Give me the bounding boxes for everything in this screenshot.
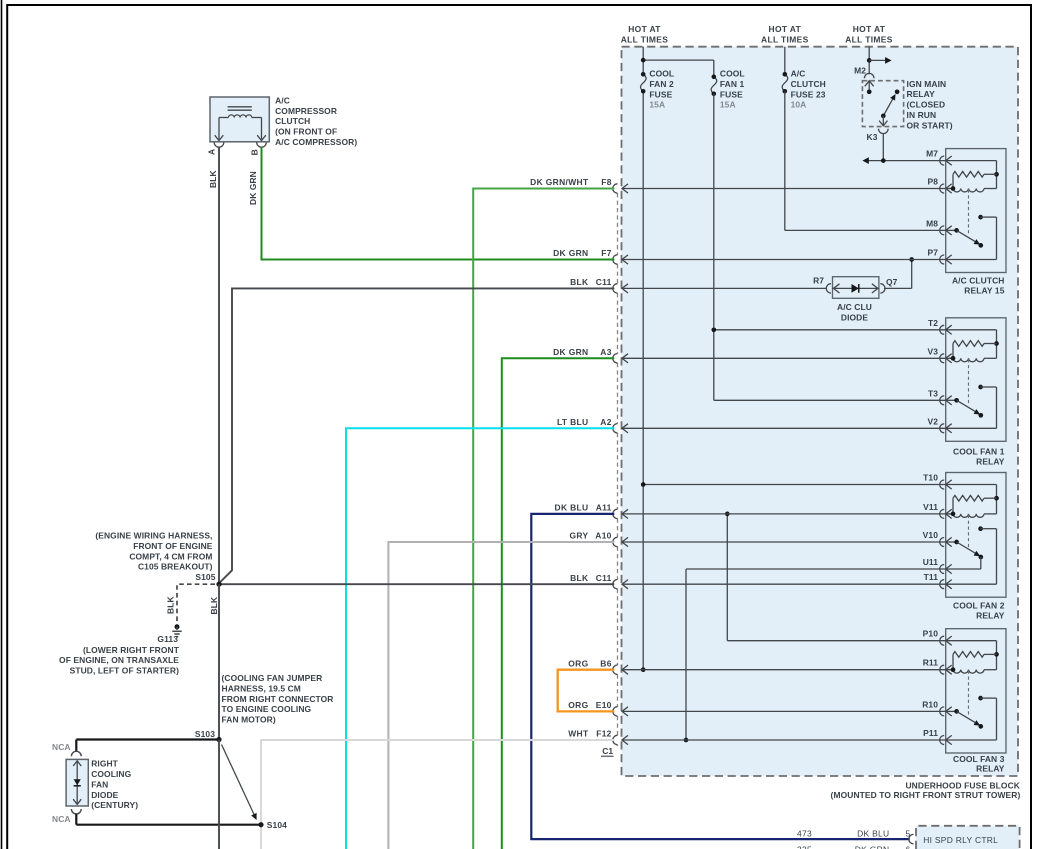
svg-text:FRONT OF ENGINE: FRONT OF ENGINE <box>133 541 213 551</box>
svg-text:FAN: FAN <box>91 779 108 789</box>
svg-text:Q7: Q7 <box>886 277 898 287</box>
svg-text:V3: V3 <box>927 346 938 356</box>
svg-text:LT BLU: LT BLU <box>557 417 588 427</box>
svg-text:FAN 2: FAN 2 <box>649 79 674 89</box>
svg-text:HOT AT: HOT AT <box>628 24 661 34</box>
svg-text:S104: S104 <box>267 820 287 830</box>
svg-text:GRY: GRY <box>569 531 588 541</box>
svg-text:FROM RIGHT CONNECTOR: FROM RIGHT CONNECTOR <box>222 694 334 704</box>
svg-text:T2: T2 <box>928 318 938 328</box>
svg-text:CLUTCH: CLUTCH <box>791 79 826 89</box>
svg-text:COMPT, 4 CM FROM: COMPT, 4 CM FROM <box>129 551 212 561</box>
svg-text:FUSE: FUSE <box>720 89 743 99</box>
svg-text:COOL FAN 2: COOL FAN 2 <box>953 601 1005 611</box>
svg-text:IGN MAIN: IGN MAIN <box>907 79 947 89</box>
svg-text:P8: P8 <box>927 177 938 187</box>
svg-text:HARNESS, 19.5 CM: HARNESS, 19.5 CM <box>222 683 301 693</box>
svg-text:10A: 10A <box>791 100 807 110</box>
svg-text:S105: S105 <box>195 572 215 582</box>
svg-text:ALL TIMES: ALL TIMES <box>621 34 669 44</box>
svg-text:M8: M8 <box>926 218 938 228</box>
svg-text:OF ENGINE, ON TRANSAXLE: OF ENGINE, ON TRANSAXLE <box>59 655 179 665</box>
svg-text:STUD, LEFT OF STARTER): STUD, LEFT OF STARTER) <box>70 666 179 676</box>
svg-text:CLUTCH: CLUTCH <box>275 116 310 126</box>
svg-text:ORG: ORG <box>568 700 588 710</box>
svg-text:HOT AT: HOT AT <box>853 24 886 34</box>
svg-text:COOL FAN 1: COOL FAN 1 <box>953 447 1005 457</box>
svg-text:BLK: BLK <box>165 596 175 614</box>
svg-text:A3: A3 <box>600 347 611 357</box>
svg-text:V2: V2 <box>927 416 938 426</box>
svg-text:FUSE 23: FUSE 23 <box>791 89 826 99</box>
svg-text:M7: M7 <box>926 149 938 159</box>
svg-text:DIODE: DIODE <box>91 790 118 800</box>
svg-text:A10: A10 <box>595 531 611 541</box>
svg-text:R10: R10 <box>922 699 938 709</box>
svg-text:B6: B6 <box>600 658 611 668</box>
svg-text:BLK: BLK <box>570 277 589 287</box>
svg-text:A: A <box>207 149 217 155</box>
svg-text:OR START): OR START) <box>907 120 953 130</box>
svg-text:F8: F8 <box>601 177 611 187</box>
svg-text:M2: M2 <box>854 65 866 75</box>
svg-text:C1: C1 <box>602 746 613 756</box>
svg-text:P11: P11 <box>923 728 938 738</box>
svg-text:(ON FRONT OF: (ON FRONT OF <box>275 127 337 137</box>
svg-text:A/C COMPRESSOR): A/C COMPRESSOR) <box>275 137 357 147</box>
svg-text:R11: R11 <box>923 658 939 668</box>
svg-text:5: 5 <box>906 828 911 838</box>
svg-text:A2: A2 <box>600 417 611 427</box>
svg-text:HI SPD RLY CTRL: HI SPD RLY CTRL <box>923 835 998 845</box>
svg-text:ALL TIMES: ALL TIMES <box>845 34 893 44</box>
svg-text:R7: R7 <box>813 276 824 286</box>
svg-text:G113: G113 <box>157 634 178 644</box>
svg-text:T10: T10 <box>923 473 938 483</box>
svg-text:(CLOSED: (CLOSED <box>907 100 946 110</box>
svg-text:A/C: A/C <box>791 69 806 79</box>
svg-text:F7: F7 <box>601 248 611 258</box>
svg-text:FUSE: FUSE <box>649 89 672 99</box>
svg-text:15A: 15A <box>649 100 665 110</box>
svg-text:COOLING: COOLING <box>91 769 131 779</box>
svg-text:E10: E10 <box>596 700 612 710</box>
svg-text:S103: S103 <box>195 729 215 739</box>
svg-text:C11: C11 <box>596 573 612 583</box>
svg-text:DK GRN: DK GRN <box>553 347 588 357</box>
svg-text:B: B <box>249 149 259 155</box>
svg-text:335: 335 <box>797 844 812 849</box>
svg-text:DK BLU: DK BLU <box>857 828 889 838</box>
svg-text:COMPRESSOR: COMPRESSOR <box>275 106 337 116</box>
svg-text:ALL TIMES: ALL TIMES <box>761 34 809 44</box>
svg-text:(ENGINE WIRING HARNESS,: (ENGINE WIRING HARNESS, <box>95 531 212 541</box>
svg-text:ORG: ORG <box>568 658 588 668</box>
svg-text:C105 BREAKOUT): C105 BREAKOUT) <box>138 562 213 572</box>
svg-text:DK GRN: DK GRN <box>855 844 890 849</box>
svg-text:NCA: NCA <box>52 742 71 752</box>
svg-text:RELAY 15: RELAY 15 <box>964 286 1004 296</box>
svg-text:P7: P7 <box>927 248 938 258</box>
svg-text:15A: 15A <box>720 100 736 110</box>
svg-text:DK GRN/WHT: DK GRN/WHT <box>530 177 589 187</box>
svg-text:COOL: COOL <box>720 69 745 79</box>
svg-text:U11: U11 <box>923 557 939 567</box>
svg-text:(CENTURY): (CENTURY) <box>91 800 138 810</box>
svg-text:BLK: BLK <box>570 573 589 583</box>
svg-text:RIGHT: RIGHT <box>91 759 118 769</box>
svg-text:T11: T11 <box>924 572 939 582</box>
svg-text:A/C: A/C <box>275 95 290 105</box>
svg-text:IN RUN: IN RUN <box>907 110 937 120</box>
svg-text:WHT: WHT <box>568 729 589 739</box>
svg-text:NCA: NCA <box>52 814 71 824</box>
svg-text:C11: C11 <box>596 277 612 287</box>
svg-text:(LOWER RIGHT FRONT: (LOWER RIGHT FRONT <box>83 645 180 655</box>
svg-text:RELAY: RELAY <box>976 610 1005 620</box>
svg-text:RELAY: RELAY <box>976 764 1005 774</box>
svg-text:473: 473 <box>797 828 812 838</box>
svg-text:A/C CLUTCH: A/C CLUTCH <box>952 276 1005 286</box>
svg-text:HOT AT: HOT AT <box>769 24 802 34</box>
svg-text:RELAY: RELAY <box>907 89 936 99</box>
svg-text:TO ENGINE COOLING: TO ENGINE COOLING <box>222 704 312 714</box>
svg-text:A/C CLU: A/C CLU <box>837 302 872 312</box>
svg-text:COOL FAN 3: COOL FAN 3 <box>953 754 1005 764</box>
svg-text:T3: T3 <box>928 388 938 398</box>
svg-text:DK GRN: DK GRN <box>248 171 258 205</box>
svg-text:FAN MOTOR): FAN MOTOR) <box>222 715 276 725</box>
svg-text:BLK: BLK <box>209 596 219 614</box>
svg-text:FAN 1: FAN 1 <box>720 79 745 89</box>
svg-text:P10: P10 <box>923 629 939 639</box>
svg-text:6: 6 <box>906 844 911 849</box>
svg-text:COOL: COOL <box>649 69 674 79</box>
svg-text:F12: F12 <box>596 729 611 739</box>
svg-text:UNDERHOOD FUSE BLOCK: UNDERHOOD FUSE BLOCK <box>905 780 1020 790</box>
svg-text:RELAY: RELAY <box>976 457 1005 467</box>
svg-text:K3: K3 <box>867 132 878 142</box>
svg-text:(MOUNTED TO RIGHT FRONT STRUT: (MOUNTED TO RIGHT FRONT STRUT TOWER) <box>831 790 1021 800</box>
svg-text:DIODE: DIODE <box>841 312 868 322</box>
svg-text:V11: V11 <box>923 502 938 512</box>
svg-text:(COOLING FAN JUMPER: (COOLING FAN JUMPER <box>222 673 323 683</box>
svg-text:DK BLU: DK BLU <box>555 503 589 513</box>
svg-text:V10: V10 <box>923 530 939 540</box>
svg-text:BLK: BLK <box>208 170 218 188</box>
svg-text:DK GRN: DK GRN <box>553 248 588 258</box>
svg-text:A11: A11 <box>596 503 612 513</box>
